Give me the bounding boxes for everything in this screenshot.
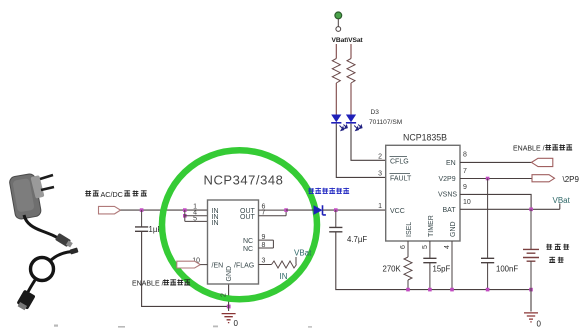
- svg-text:/EN: /EN: [212, 262, 224, 269]
- svg-text:VCC: VCC: [390, 208, 405, 215]
- svg-text:CFLG: CFLG: [390, 158, 409, 165]
- wire: right LED branch top: [350, 44, 352, 59]
- adapter plug face: [30, 175, 44, 199]
- svg-text:V2P9: V2P9: [439, 176, 456, 183]
- junction at left ground: [227, 305, 231, 309]
- label: wall AC/DC adapter (CJK): [85, 190, 147, 199]
- IC box: [386, 145, 460, 241]
- wire: ISEL stub: [407, 241, 409, 257]
- svg-text:TIMER: TIMER: [428, 215, 435, 237]
- svg-text:4.7µF: 4.7µF: [347, 235, 367, 244]
- LED right emission arrows: [354, 125, 362, 131]
- wire: V2P9 to connector: [460, 178, 532, 180]
- wire: battery branch: [530, 209, 532, 249]
- coiled cable upper tail: [51, 252, 72, 261]
- battery BT1: [523, 249, 539, 261]
- svg-text:8: 8: [463, 152, 467, 159]
- wire: GND pin to rail: [451, 241, 453, 290]
- svg-text:BAT: BAT: [443, 207, 457, 214]
- wire: 100nF branch: [487, 179, 489, 258]
- svg-text:2: 2: [221, 293, 228, 297]
- svg-text:10: 10: [463, 199, 471, 206]
- resistor R flag pull-up: [272, 261, 297, 268]
- wire: rail to diode: [286, 209, 313, 211]
- wire: 1uF down and along bottom to left ground: [142, 231, 229, 306]
- label Li-ion battery (CJK): [546, 244, 569, 263]
- input off-page connector: [99, 206, 121, 214]
- LED D left: [331, 115, 341, 123]
- svg-text:ENABLE /: ENABLE /: [513, 146, 545, 153]
- wire: VSNS right and down to BAT rail: [460, 194, 531, 209]
- junction at 1uF tap: [140, 208, 144, 212]
- junction: pin1/4/5 bus: [183, 208, 187, 212]
- svg-text:NC: NC: [243, 246, 253, 253]
- svg-text:6: 6: [400, 245, 407, 249]
- wire: to left LED: [335, 83, 337, 115]
- wire: diode to VCC: [323, 209, 386, 211]
- wire: left LED branch top: [335, 44, 337, 59]
- wire: /FLAG to resistor: [259, 264, 272, 266]
- enable connector at /EN: [177, 261, 201, 268]
- wire: rail to right ground: [530, 290, 532, 312]
- label ENABLE / charger (CJK): [132, 279, 190, 287]
- svg-text:VBat: VBat: [294, 249, 312, 258]
- svg-text:15pF: 15pF: [433, 265, 451, 274]
- svg-text:FAULT: FAULT: [390, 175, 412, 182]
- power symbol stem: [337, 19, 339, 27]
- USB plug: [15, 289, 35, 311]
- wire: left LED to FAULT: [336, 124, 385, 178]
- svg-text:ENABLE /: ENABLE /: [132, 281, 164, 288]
- junction OUT bracket: [284, 208, 288, 212]
- adapter cable mini-USB connector: [55, 233, 74, 249]
- wire: input rail to pin 1: [121, 209, 208, 211]
- diode D Schottky: [314, 205, 323, 215]
- EN off-page connector (points left): [532, 158, 553, 166]
- wire: NCP347 GND pin down: [228, 284, 230, 311]
- ground (right): [524, 313, 538, 322]
- svg-text:5: 5: [193, 215, 197, 222]
- power symbol dot: [335, 12, 342, 19]
- LED left emission arrows: [340, 125, 348, 131]
- svg-text:701107/SM: 701107/SM: [369, 119, 402, 126]
- wire: down to 4.7uF: [335, 210, 337, 227]
- adapter cable: [24, 215, 58, 238]
- resistor R right: [347, 59, 355, 84]
- wire: OUT6/OUT7 bracket to rail: [259, 210, 287, 216]
- ground (left): [222, 314, 236, 323]
- svg-text:\2P9: \2P9: [563, 175, 580, 184]
- adapter plug prongs: [40, 175, 54, 190]
- svg-text:0: 0: [537, 320, 542, 329]
- capacitor 4.7uF: [329, 227, 342, 231]
- svg-text:1: 1: [378, 203, 382, 210]
- svg-text:0: 0: [234, 319, 239, 328]
- resistor R left: [332, 59, 340, 84]
- svg-text:ISEL: ISEL: [406, 222, 413, 237]
- svg-text:3: 3: [262, 258, 266, 265]
- junction at V2P9/100nF: [486, 177, 490, 181]
- capacitor C 1uF: [135, 227, 148, 231]
- wire: TIMER stub: [429, 241, 431, 258]
- wire: BAT rail: [460, 204, 560, 210]
- svg-text:2: 2: [378, 154, 382, 161]
- LED D right: [346, 115, 356, 123]
- junction at 4.7uF tap: [334, 208, 338, 212]
- svg-text:270K: 270K: [383, 265, 402, 274]
- svg-text:GND: GND: [226, 266, 233, 282]
- wire: to right LED: [350, 83, 352, 115]
- V2P9 off-page connector (points right): [532, 175, 555, 182]
- coiled cable lower tail to USB plug: [28, 280, 35, 292]
- capacitor 15pF: [423, 258, 436, 262]
- svg-text:OUT: OUT: [240, 214, 256, 221]
- svg-text:VSNS: VSNS: [438, 192, 457, 199]
- svg-text:D3: D3: [371, 109, 380, 116]
- faint cropped caption marks: [54, 325, 312, 328]
- wire: EN to connector: [460, 161, 532, 163]
- resistor 270K: [404, 257, 412, 280]
- svg-text:IN: IN: [280, 272, 288, 281]
- svg-text:5: 5: [422, 245, 429, 249]
- svg-text:EN: EN: [446, 160, 456, 167]
- wire: 4.7uF to bottom rail: [336, 232, 531, 290]
- junctions on bottom rail: [406, 288, 410, 292]
- power symbol ring: [336, 27, 341, 32]
- wire: down to 1uF: [141, 210, 143, 226]
- label ENABLE / charger top right (CJK): [513, 144, 572, 152]
- adapter body: [9, 173, 42, 220]
- svg-text:IN: IN: [212, 220, 219, 227]
- svg-text:100nF: 100nF: [496, 265, 518, 274]
- svg-text:GND: GND: [450, 221, 457, 237]
- capacitor 100nF: [481, 258, 494, 262]
- NC bracket: [259, 240, 274, 248]
- svg-text:VBat: VBat: [553, 196, 571, 205]
- svg-text:NC: NC: [243, 238, 253, 245]
- wire: resistor up to VBat: [295, 257, 297, 265]
- wire: right LED to CFLG: [351, 124, 386, 161]
- svg-text:/FLAG: /FLAG: [234, 262, 254, 269]
- svg-text:VBat\VSat: VBat\VSat: [332, 37, 364, 44]
- junction BAT/battery: [529, 208, 533, 212]
- wire: pin 4/5 bus: [185, 210, 208, 221]
- svg-text:7: 7: [463, 168, 467, 175]
- svg-text:NCP347/348: NCP347/348: [204, 173, 284, 188]
- svg-text:4: 4: [444, 245, 451, 249]
- wire: battery to rail: [530, 261, 532, 289]
- label Schottky diode (CJK blue): [308, 188, 349, 194]
- coiled cable loop: [31, 258, 54, 281]
- svg-text:9: 9: [463, 184, 467, 191]
- svg-text:3: 3: [378, 171, 382, 178]
- svg-text:AC/DC: AC/DC: [101, 190, 123, 199]
- svg-text:NCP1835B: NCP1835B: [403, 133, 447, 143]
